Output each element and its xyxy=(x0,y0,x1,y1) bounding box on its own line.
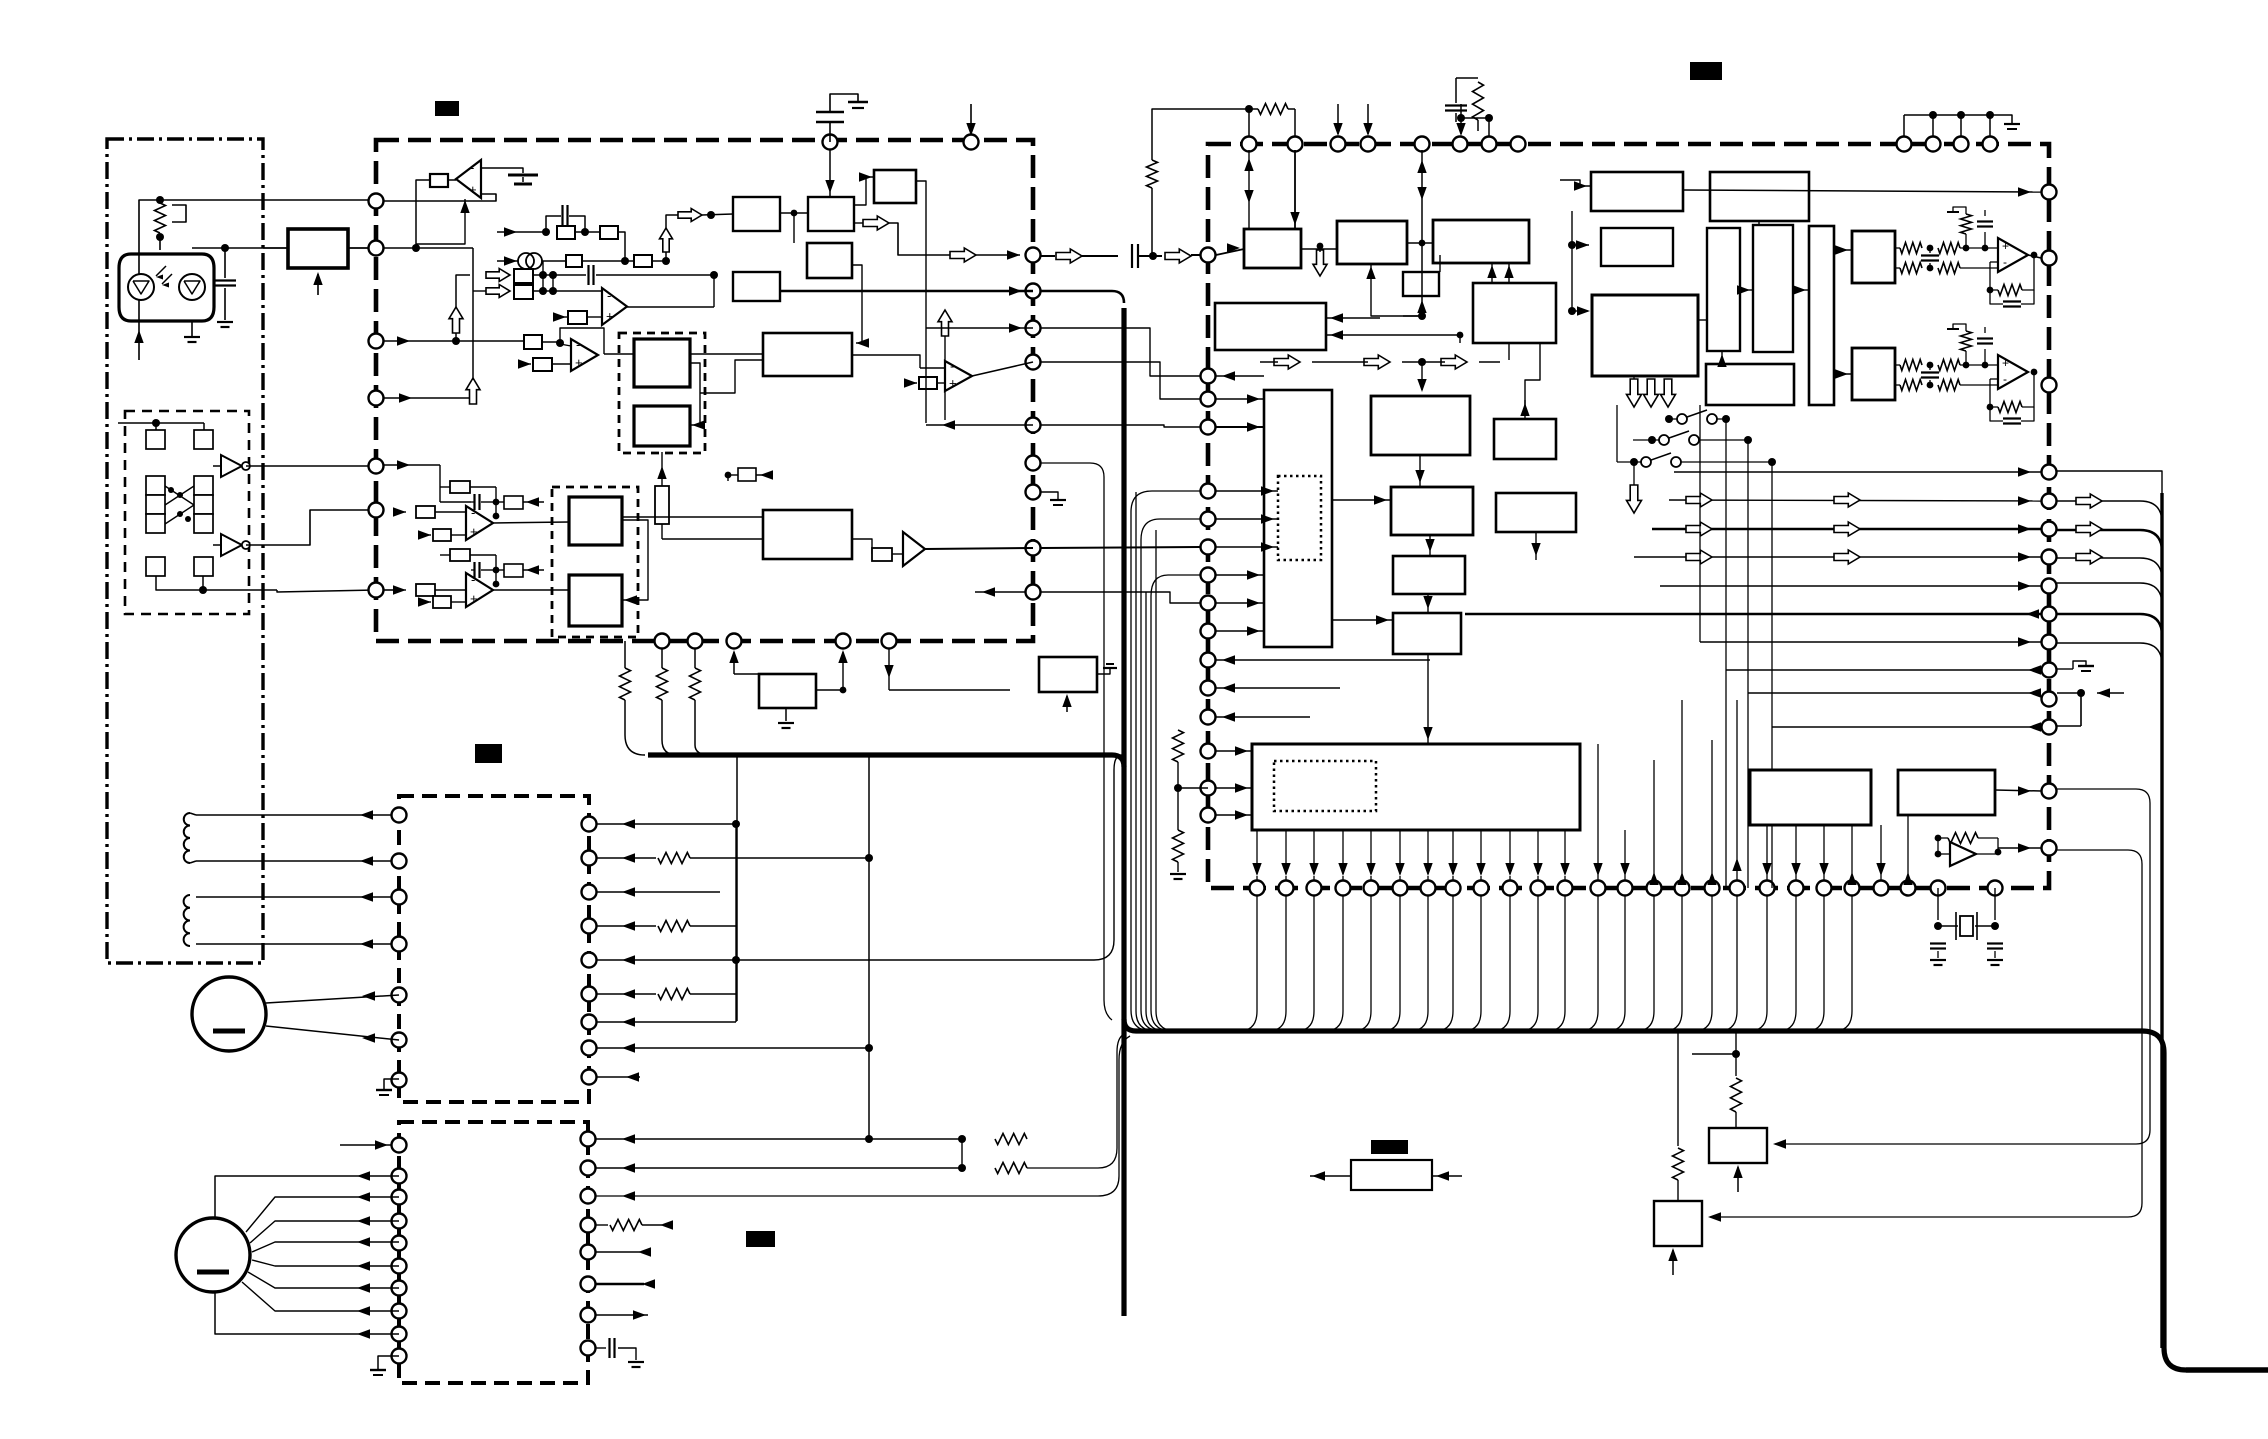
pin drv2 right y1284 xyxy=(581,1277,596,1292)
pin DSP left y631 xyxy=(1201,624,1216,639)
box U6 top xyxy=(496,564,544,577)
block audio top xyxy=(1852,231,1895,283)
bus rider x1136 xyxy=(1136,460,1152,1031)
sub-box hold2 xyxy=(552,487,638,637)
pin DSP bottom x1286 xyxy=(1279,881,1294,896)
signal y472 xyxy=(1674,467,2041,476)
wire drv1 994 xyxy=(597,989,736,1000)
bottom pin feeder x1565 xyxy=(1547,895,1565,1031)
pin DSP bottom x1625 xyxy=(1618,881,1633,896)
wire U3 out xyxy=(604,353,634,355)
block G0 xyxy=(1601,228,1673,266)
syscon drop x1481 xyxy=(1476,830,1485,881)
bottom pin feeder x1453 xyxy=(1435,895,1453,1031)
block EQ2 xyxy=(808,197,854,231)
wire pin399 in xyxy=(1216,394,1264,403)
pin drv1 right y994 xyxy=(582,987,597,1002)
wire L-N xyxy=(1425,535,1434,556)
block EQ5 xyxy=(733,272,780,301)
bus RF out thick xyxy=(1041,291,1124,303)
wire H2 in xyxy=(610,354,634,425)
syscon drop x1257 xyxy=(1252,830,1261,881)
wire RF425 to DSP xyxy=(1041,425,1200,427)
pin DSP bottom x1453 xyxy=(1446,881,1461,896)
pin DSP right y699 xyxy=(2042,692,2057,707)
pin drv1 left y995 xyxy=(392,988,407,1003)
wire reg2 vert xyxy=(1673,1031,1684,1201)
svg-text:-: - xyxy=(607,288,611,303)
pin DSP bottom x1538 xyxy=(1531,881,1546,896)
res drop x695 xyxy=(690,649,701,745)
feeder x625 xyxy=(625,735,645,755)
driver IC1 border xyxy=(399,796,589,1102)
row2 out arrow xyxy=(678,209,733,222)
arrow into pin734 xyxy=(729,650,759,674)
sled bottom route xyxy=(215,1293,399,1339)
pin DSP left y491 xyxy=(1201,484,1216,499)
pin RFIC right y425 xyxy=(1026,418,1041,433)
u-turn w1 xyxy=(1131,491,1200,1031)
wire AOUT pin791 xyxy=(1995,786,2041,795)
mirror box small xyxy=(725,468,773,481)
svg-text:+: + xyxy=(470,524,478,539)
block N xyxy=(1393,556,1465,594)
wire RF362 to DSP xyxy=(1041,362,1200,399)
feeder x905 xyxy=(905,641,919,755)
wire servo-L xyxy=(1332,495,1391,504)
pin DSP right y727 xyxy=(2042,720,2057,735)
pin drv2 left y1288 xyxy=(392,1281,407,1296)
open arrow down b xyxy=(1644,379,1659,407)
pin RFIC left y201 xyxy=(369,194,384,209)
route y471 xyxy=(2057,471,2162,493)
block APC xyxy=(288,229,348,268)
block M hold xyxy=(1496,493,1576,532)
cap U5 xyxy=(440,487,499,510)
block AOUT xyxy=(1898,770,1995,815)
stack right xyxy=(194,476,213,533)
res U6 in xyxy=(393,584,466,596)
wire drv2 1284 xyxy=(596,1279,655,1288)
wire VC right xyxy=(816,650,848,693)
pin DSP bottom x1824 xyxy=(1817,881,1832,896)
wire H1 to M1 xyxy=(690,353,763,355)
gnd PD xyxy=(1097,664,1117,674)
wire pin788 xyxy=(1178,783,1252,792)
arrow PD bottom xyxy=(1062,694,1071,712)
block F2 xyxy=(1710,172,1809,221)
syscon drop x1314 xyxy=(1309,830,1318,881)
block servo error xyxy=(763,333,852,376)
wire monitor out xyxy=(277,590,376,592)
big block syscon xyxy=(1252,744,1580,830)
tracking coil xyxy=(184,895,190,946)
pin RFIC right y291 xyxy=(1026,284,1041,299)
bottom pin feeder x1712 xyxy=(1694,895,1712,1031)
wire drv1 1048 xyxy=(597,1043,873,1052)
light rays xyxy=(156,266,172,288)
battery U1 out xyxy=(481,168,538,184)
wire PLL1-PLL2 xyxy=(1407,240,1433,247)
wire pin717 out xyxy=(1216,712,1310,721)
wire drv1 1077 xyxy=(597,1072,640,1081)
pin DSP bottom x1510 xyxy=(1503,881,1518,896)
sled fan wire 2 xyxy=(252,1237,399,1252)
arrow down x1338 xyxy=(1333,104,1342,136)
wire U2 out fb xyxy=(627,275,714,307)
wire drv1 892 xyxy=(597,887,720,896)
res fb amp xyxy=(1935,833,2002,856)
pin DSP right y385 xyxy=(2042,378,2057,393)
feed arrow A xyxy=(449,275,470,341)
pin DSP bottom x1481 xyxy=(1474,881,1489,896)
wire x1295 up xyxy=(1294,109,1296,136)
wire pin631 in xyxy=(1216,626,1264,635)
wire pin590 path xyxy=(384,589,398,591)
u-turn a xyxy=(1130,491,1200,540)
bottom pin feeder x1625 xyxy=(1607,895,1625,1031)
pin DSP left y547 xyxy=(1201,540,1216,555)
svg-text:-: - xyxy=(470,160,474,175)
wire audio top out xyxy=(2028,255,2049,258)
wire pin466 xyxy=(384,460,440,487)
wire drv1 960 xyxy=(597,755,1122,965)
wire pin547 in xyxy=(1216,542,1278,551)
DAC drops xyxy=(1762,825,1856,885)
pin DSP bottom x1737 xyxy=(1730,881,1745,896)
block PD hold xyxy=(1039,657,1097,692)
wire pin751 xyxy=(1216,746,1252,755)
pin drv1 right y960 xyxy=(582,953,597,968)
block servo cmd xyxy=(1264,390,1332,647)
spindle motor xyxy=(192,977,266,1051)
op-amp U7 xyxy=(903,532,925,566)
bus rider x1146 xyxy=(1146,486,1162,1031)
bottom pin feeder x1314 xyxy=(1296,895,1314,1031)
bottom pin feeder x1538 xyxy=(1520,895,1538,1031)
res U5 in xyxy=(393,506,466,518)
svg-text:-: - xyxy=(950,359,954,374)
pin RFIC left y341 xyxy=(369,334,384,349)
syscon drop x1286 xyxy=(1281,830,1290,881)
cap to gnd above IC xyxy=(816,94,868,142)
wire RF592 to DSP xyxy=(1041,592,1200,603)
open arrow down x1320 xyxy=(1313,249,1327,318)
pin RFIC right y463 xyxy=(1026,456,1041,471)
wire x889 down xyxy=(843,649,894,690)
pin DSP right y614 xyxy=(2042,607,2057,622)
u-turn w3 xyxy=(1151,575,1200,1031)
square S4 xyxy=(194,557,213,576)
u-turn w2 xyxy=(1141,519,1200,1031)
svg-text:-: - xyxy=(2003,255,2007,269)
bottom pin feeder x1682 xyxy=(1664,895,1682,1031)
pin DSP top x1249 xyxy=(1242,137,1257,152)
wire EQ4 path xyxy=(793,213,795,243)
u-turn 1 xyxy=(1140,462,1208,491)
bottom pin feeder x1481 xyxy=(1463,895,1481,1031)
signal y693 xyxy=(1748,688,2041,697)
pin drv1 right y1077 xyxy=(582,1070,597,1085)
wire U1 fb xyxy=(416,180,430,248)
wire N-O xyxy=(1423,594,1432,613)
square S2 xyxy=(156,423,213,449)
audio filter top xyxy=(1895,243,1998,274)
switch row 1 xyxy=(1665,410,1730,424)
wire U4 out xyxy=(972,362,1033,376)
wire x1249 up xyxy=(1248,109,1250,136)
pin RFIC right y548 xyxy=(1026,541,1041,556)
bus rider x1156 xyxy=(1156,512,1172,1031)
feed arrow B xyxy=(466,291,480,404)
pin drv2 left y1356 xyxy=(392,1349,407,1364)
wire focus+ xyxy=(196,810,399,819)
pin RFIC bottom x889 xyxy=(882,634,897,649)
black label box drv1 xyxy=(475,744,502,763)
signal y693 bracket xyxy=(2057,688,2124,726)
wire F1 in xyxy=(1544,180,1591,191)
pin DSP left y519 xyxy=(1201,512,1216,527)
block L err xyxy=(1391,487,1473,535)
monitor diode sub-box xyxy=(125,411,249,614)
bus right corner xyxy=(2142,1031,2268,1370)
audio rc bot xyxy=(1947,324,1993,365)
wire pin255 to ADC xyxy=(1216,243,1244,255)
svg-text:-: - xyxy=(576,337,580,352)
wire x1295 to PLL xyxy=(1290,150,1299,229)
bus corner join xyxy=(1124,1019,2142,1031)
wire SC up xyxy=(1403,300,1427,316)
syscon drop x1400 xyxy=(1395,830,1404,881)
wire reset in xyxy=(1432,1171,1462,1180)
arrow down x1368 xyxy=(1363,104,1372,136)
route pin850 xyxy=(1708,850,2142,1222)
wire drv2 1252 xyxy=(596,1247,651,1256)
arrow Vcc x971 xyxy=(966,104,975,136)
open arrows outside y529 xyxy=(2076,522,2102,536)
svg-text:-: - xyxy=(2003,372,2007,386)
block H big xyxy=(1592,295,1698,376)
pin DSP right y670 xyxy=(2042,663,2057,678)
signal y670 gnd bracket xyxy=(2057,661,2094,671)
open arrows y529 xyxy=(1686,522,1860,536)
tall block T3 xyxy=(1809,226,1834,405)
wire drv1 926 xyxy=(597,921,736,932)
bracket x1461-1489 xyxy=(1461,114,1493,136)
pin DSP bottom x1371 xyxy=(1364,881,1379,896)
res U5+ xyxy=(418,529,466,541)
route y643 xyxy=(2057,643,2162,665)
pin DSP bottom x1400 xyxy=(1393,881,1408,896)
svg-text:+: + xyxy=(2002,356,2009,370)
gnd VC xyxy=(778,708,794,728)
square H3 xyxy=(569,497,622,545)
bottom pin feeder x1737 xyxy=(1719,895,1737,1031)
wire pin341 xyxy=(384,336,524,345)
open arrow down a xyxy=(1627,376,1642,407)
pin DSP right y642 xyxy=(2042,635,2057,650)
sled fan wire 1 xyxy=(250,1216,399,1243)
wire demod down xyxy=(1508,343,1510,360)
wire demod to K xyxy=(1509,362,1520,419)
syscon drop x1453 xyxy=(1448,830,1457,881)
wire EQ3 right xyxy=(916,181,926,423)
resistor U1 in xyxy=(430,174,456,187)
pin drv1 right y892 xyxy=(582,885,597,900)
pin DSP bottom x1654 xyxy=(1647,881,1662,896)
sled fan wire 5 xyxy=(242,1282,399,1316)
wire pin603 in xyxy=(1216,598,1264,607)
wire RF492 drop xyxy=(1041,492,1136,512)
pin drv2 right y1348 xyxy=(581,1341,596,1356)
driver IC2 border xyxy=(399,1122,588,1383)
pin drv2 right y1315 xyxy=(581,1308,596,1323)
wire PLL2 arrows xyxy=(1487,263,1513,283)
pin drv1 left y861 xyxy=(392,854,407,869)
box U5 top xyxy=(496,496,544,509)
block K RAM xyxy=(1494,419,1556,459)
pin DSP bottom x1908 xyxy=(1901,881,1916,896)
pin RFIC left y510 xyxy=(369,503,384,518)
wire pin575 in xyxy=(1216,570,1264,579)
wire drv2 1348 xyxy=(596,1338,644,1367)
arrow APC bottom xyxy=(313,272,322,295)
res drop x625 xyxy=(620,641,631,735)
pin drv2 left y1311 xyxy=(392,1304,407,1319)
res drop x662 xyxy=(657,649,668,740)
wire U1 plus xyxy=(416,199,470,244)
res net top left xyxy=(1147,105,1254,256)
vert x543 xyxy=(542,261,544,291)
wire S3-S4 out xyxy=(156,576,277,594)
pin RFIC left y248 xyxy=(369,241,384,256)
pin DSP left y399 xyxy=(1201,392,1216,407)
wire F1 out xyxy=(1683,187,2041,196)
open arrows row y362 xyxy=(1260,355,1503,369)
black label box power xyxy=(1371,1140,1408,1154)
pin DSP bottom x1881 xyxy=(1874,881,1889,896)
res x1010 y1139 xyxy=(962,1050,1119,1145)
signal y670 xyxy=(1726,665,2041,674)
cap input xyxy=(1132,244,1162,268)
square H4 xyxy=(569,575,622,626)
box U7 in xyxy=(872,548,903,561)
audio rc top xyxy=(1947,207,1998,248)
wire pin328 xyxy=(926,323,1033,332)
tall block T2 xyxy=(1753,225,1793,352)
drop x1654 xyxy=(1649,760,1658,885)
wire drv2 1168 xyxy=(596,1034,1124,1174)
bottom pin feeder x1598 xyxy=(1580,895,1598,1031)
arrow down x1461 xyxy=(1456,104,1465,136)
wire drv2 1225 xyxy=(596,1220,673,1231)
fb U3 xyxy=(560,328,604,354)
pin DSP top x1460 xyxy=(1453,137,1468,152)
wire ADC-PLL1 xyxy=(1301,243,1337,258)
arrow into pickup xyxy=(134,330,143,360)
square S1 xyxy=(118,419,165,449)
rider1 xyxy=(1041,492,1156,1031)
wire H3 H4 right xyxy=(622,520,648,605)
focus coil xyxy=(184,813,196,863)
fb res U6 xyxy=(440,549,499,587)
stack left xyxy=(146,476,165,533)
pin DSP bottom x1712 xyxy=(1705,881,1720,896)
res TE in xyxy=(524,335,564,349)
wire H3 out xyxy=(622,516,763,518)
wire drv2 1315 xyxy=(596,1310,648,1319)
res U6+ xyxy=(418,596,466,608)
pin drv1 left y815 xyxy=(392,808,407,823)
pin DSP right y258 xyxy=(2042,251,2057,266)
wire PLL1 up arrow xyxy=(1366,264,1422,316)
inverter N1 xyxy=(213,455,250,477)
wire drv1 824 xyxy=(597,819,740,1022)
rc pair top xyxy=(1445,78,1484,131)
pin DSP bottom x1767 xyxy=(1760,881,1775,896)
wire RF to DSP xyxy=(1041,255,1055,257)
pin drv1 right y1022 xyxy=(582,1015,597,1030)
pin drv1 left y1040 xyxy=(392,1033,407,1048)
pin drv2 left y1334 xyxy=(392,1327,407,1342)
wire U7 out xyxy=(925,548,1033,549)
wire N1 out xyxy=(246,465,376,467)
svg-text:-: - xyxy=(471,505,475,520)
wire photodiode out xyxy=(192,244,375,252)
arrow reg2 bottom xyxy=(1668,1248,1677,1275)
block reg2 xyxy=(1654,1201,1702,1246)
pin DSP bottom x1938 xyxy=(1931,881,1946,896)
feeder x737 xyxy=(736,755,738,1021)
wire bus drop x1736 xyxy=(1731,1031,1742,1128)
pin DSP right y791 xyxy=(2042,784,2057,799)
svg-text:+: + xyxy=(606,309,614,324)
signal y529 xyxy=(1652,440,2041,534)
dotted sub syscon xyxy=(1274,761,1376,811)
pin DSP top x1368 xyxy=(1361,137,1376,152)
pin RFIC right y255 xyxy=(1026,248,1041,263)
res x1178 b xyxy=(1170,788,1186,879)
pin RFIC top x830 xyxy=(823,135,838,150)
bottom pin feeder x1400 xyxy=(1382,895,1400,1031)
wire drv1 858 xyxy=(597,853,873,864)
capacitor C1 xyxy=(214,248,236,327)
row2 res1 xyxy=(566,255,634,267)
wire track+ xyxy=(196,892,399,901)
square H2 xyxy=(634,406,690,446)
pin drv2 right y1225 xyxy=(581,1218,596,1233)
wire drv1 1022 xyxy=(597,1017,736,1026)
amp tri xyxy=(1935,838,1976,866)
wire drv2 1139 xyxy=(596,1134,966,1143)
pin drv1 left y897 xyxy=(392,890,407,905)
RF amp IC border xyxy=(376,140,1033,641)
pin RFIC top x971 xyxy=(964,135,979,150)
op-amp U4 xyxy=(945,359,972,391)
bottom pin feeder x1767 xyxy=(1749,895,1767,1031)
block defect xyxy=(763,510,852,559)
wire y1054 xyxy=(1692,1031,1736,1054)
switch verticals xyxy=(1617,405,1772,888)
pin DSP left y815 xyxy=(1201,808,1216,823)
open arrow x1056 xyxy=(1056,249,1118,263)
wire down to J xyxy=(1417,362,1426,392)
bottom pin feeder x1257 xyxy=(1239,895,1257,1031)
wire F1-F2 link xyxy=(1568,211,1590,316)
wire EQ2 to pin256 xyxy=(889,223,1020,260)
open arrows y500 xyxy=(1686,493,1860,507)
pin DSP left y603 xyxy=(1201,596,1216,611)
